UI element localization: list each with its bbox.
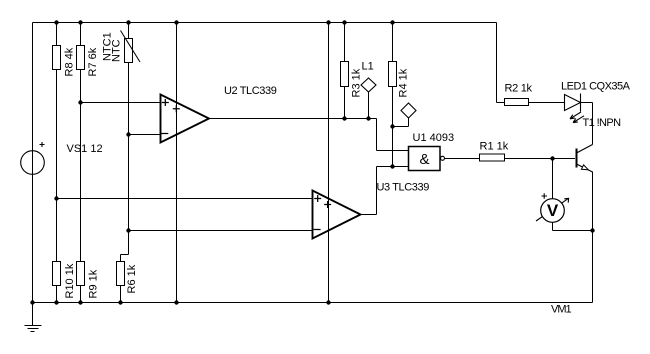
svg-text:R3 1k: R3 1k (351, 68, 363, 97)
svg-text:VM1: VM1 (551, 304, 572, 316)
svg-text:R8 4k: R8 4k (64, 47, 76, 76)
svg-text:R9 1k: R9 1k (88, 269, 100, 298)
svg-text:V: V (547, 201, 559, 220)
svg-text:R10 1k: R10 1k (64, 263, 76, 298)
svg-text:T1 !NPN: T1 !NPN (583, 117, 622, 129)
svg-text:U1 4093: U1 4093 (413, 132, 455, 144)
svg-text:R1 1k: R1 1k (480, 141, 509, 153)
svg-text:R2 1k: R2 1k (505, 83, 533, 95)
svg-text:NTC: NTC (111, 39, 123, 62)
svg-text:R4 1k: R4 1k (398, 68, 410, 97)
svg-text:U3 TLC339: U3 TLC339 (377, 182, 430, 194)
svg-text:LED1 CQX35A: LED1 CQX35A (561, 81, 631, 93)
svg-text:R6 1k: R6 1k (126, 264, 138, 293)
svg-text:&: & (419, 151, 429, 168)
svg-text:VS1 12: VS1 12 (67, 143, 103, 155)
svg-text:R7 6k: R7 6k (87, 47, 99, 76)
svg-text:U2 TLC339: U2 TLC339 (224, 85, 277, 97)
svg-text:L1: L1 (362, 61, 374, 73)
